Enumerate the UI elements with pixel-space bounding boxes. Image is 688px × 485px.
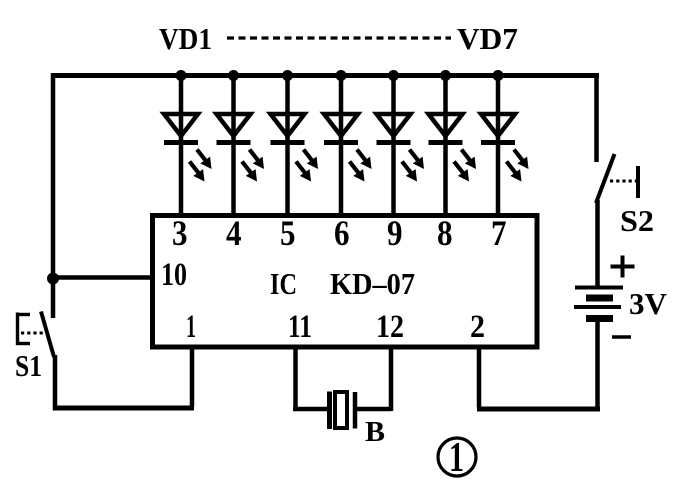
battery BT plate long 2 [574, 305, 621, 309]
switch S1 blade [41, 312, 54, 358]
IC U1 KD-07 box [153, 216, 538, 348]
svg-text:10: 10 [161, 257, 187, 293]
svg-text:3V: 3V [629, 286, 668, 321]
node pin10 junction dot [47, 273, 59, 285]
svg-text:4: 4 [226, 213, 242, 253]
battery BT plate long top [575, 286, 623, 290]
svg-text:S1: S1 [15, 348, 42, 383]
wire pin1 vertical [190, 345, 195, 406]
node junction dot VD6 [440, 70, 451, 81]
svg-text:2: 2 [470, 309, 485, 345]
figure number circled 1 [438, 438, 476, 476]
wire pin12 vertical [389, 345, 394, 411]
diode cathode bar [164, 140, 198, 145]
svg-text:12: 12 [376, 309, 404, 345]
buzzer B right plate [353, 392, 358, 429]
light emission arrow 1 [197, 150, 206, 161]
LED VD6 [429, 75, 477, 215]
svg-text:1: 1 [186, 309, 196, 345]
wire bottom left horizontal [53, 406, 194, 411]
svg-text:6: 6 [334, 213, 350, 253]
node junction dot VD2 [228, 70, 239, 81]
svg-text:VD7: VD7 [457, 21, 518, 56]
battery BT plate short thick 2 [586, 315, 613, 322]
wire pin10 horizontal [53, 275, 152, 280]
switch S2 actuator bar [636, 166, 640, 198]
switch S1 actuator bracket [16, 313, 30, 346]
node junction dot VD5 [388, 70, 399, 81]
svg-text:7: 7 [491, 213, 507, 253]
svg-text:KD–07: KD–07 [330, 266, 415, 301]
buzzer B left plate [327, 392, 332, 430]
wire right vertical to S2 [594, 73, 599, 162]
wire S2 lower to battery [595, 200, 600, 289]
node junction dot VD4 [336, 70, 347, 81]
battery BT minus sign [612, 335, 631, 339]
svg-text:VD1: VD1 [159, 21, 212, 56]
svg-text:1: 1 [449, 435, 464, 481]
wire left vertical [51, 73, 56, 318]
LED VD2 [217, 75, 265, 215]
LED VD1 [164, 75, 212, 215]
buzzer B crystal rect [335, 392, 347, 428]
LED VD4 [324, 75, 372, 215]
svg-text:3: 3 [172, 213, 188, 253]
diode triangle anode [164, 114, 198, 136]
switch S1 actuator dashed link [21, 332, 44, 335]
LED VD7 [481, 75, 529, 215]
wire pin2 vertical [477, 345, 482, 407]
switch S2 blade [596, 154, 615, 203]
LED VD3 [271, 75, 319, 215]
svg-text:9: 9 [387, 213, 403, 253]
svg-text:5: 5 [280, 213, 296, 253]
node junction dot VD3 [282, 70, 293, 81]
wire top rail [51, 73, 599, 78]
battery BT 3V plus sign [611, 256, 635, 278]
wire pin11 vertical [293, 345, 298, 411]
svg-text:8: 8 [437, 213, 453, 253]
wire buzzer right lead [353, 407, 391, 412]
LED VD5 [377, 75, 425, 215]
wire bottom right horizontal [477, 407, 600, 412]
node junction dot VD1 [176, 70, 187, 81]
light emission arrow 2 [190, 162, 199, 174]
wire battery lower vertical [595, 317, 600, 411]
switch S2 actuator dashed link [610, 180, 636, 183]
wire buzzer left lead [293, 407, 327, 412]
svg-text:B: B [365, 417, 385, 448]
node junction dot VD7 [493, 70, 504, 81]
svg-text:11: 11 [288, 309, 312, 345]
svg-text:S2: S2 [620, 203, 654, 238]
wire LED branch to IC pin [179, 75, 184, 215]
battery BT plate short thick 1 [586, 295, 613, 302]
svg-text:IC: IC [270, 266, 297, 301]
dashed line VD1..VD7 [227, 36, 451, 39]
wire S1 lower [53, 355, 58, 411]
